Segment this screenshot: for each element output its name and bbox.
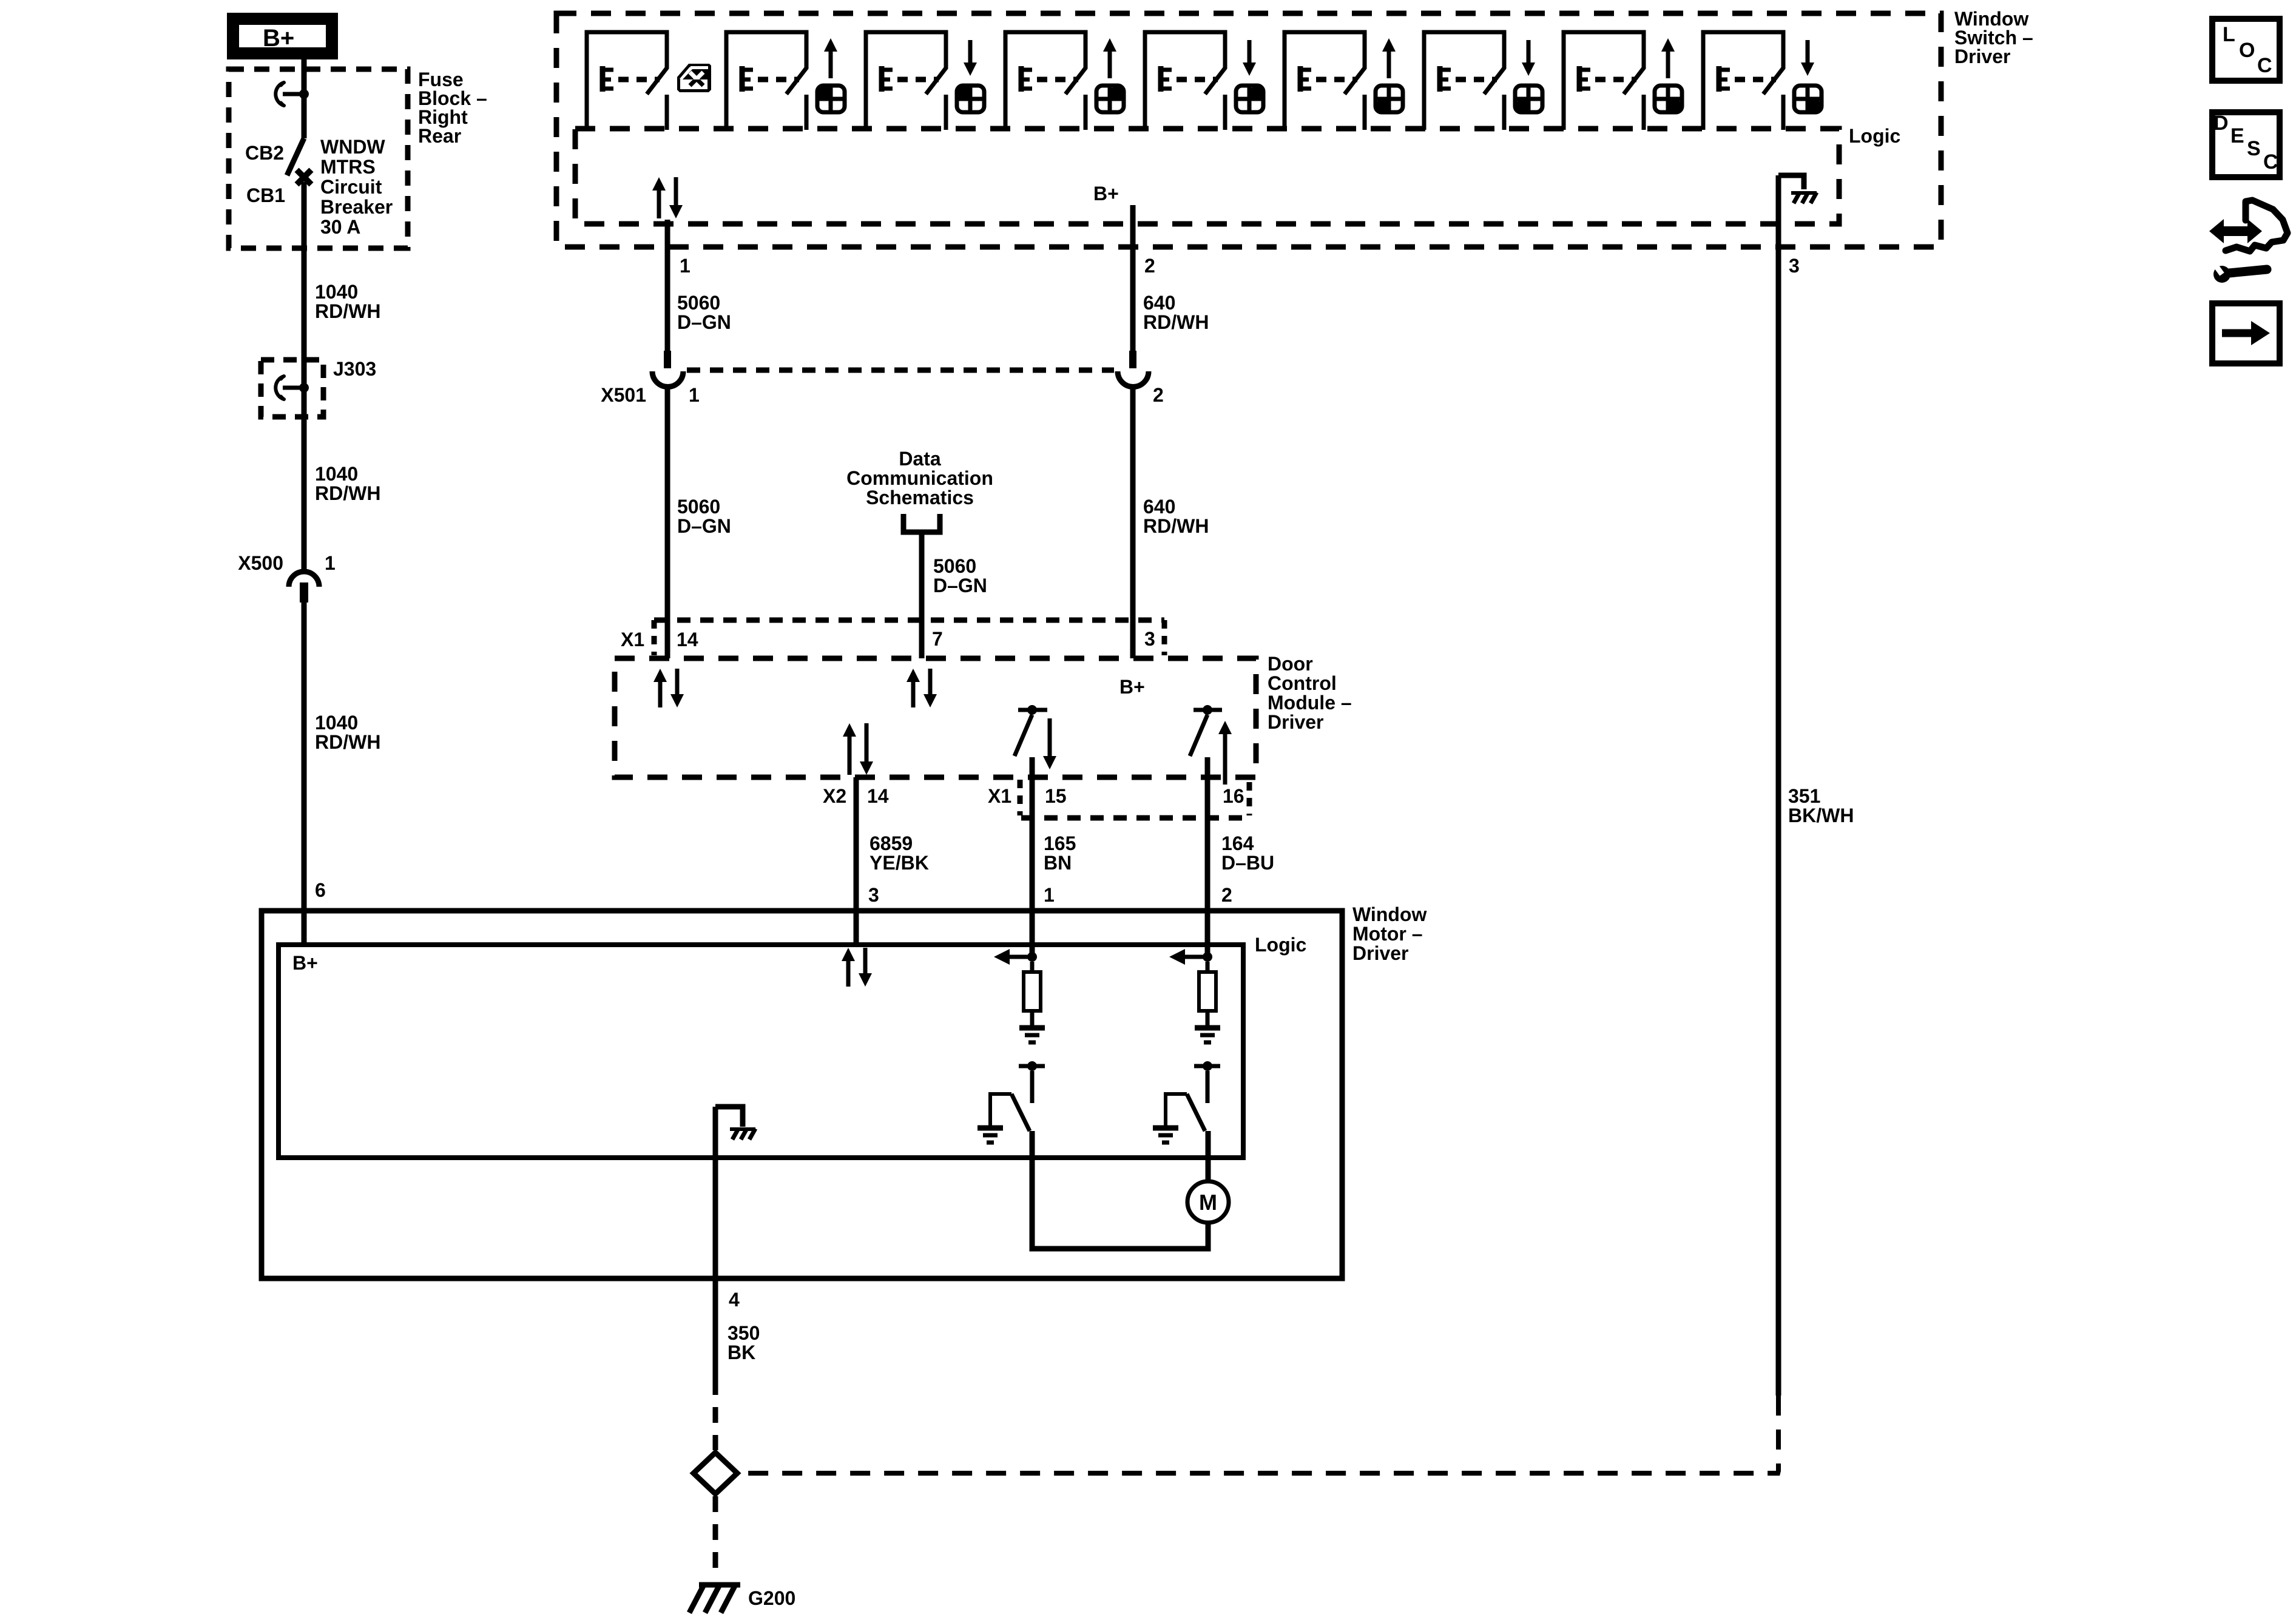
ground [1153, 1126, 1178, 1131]
window switch contact (box at x=2577) [1564, 32, 1644, 130]
dashed wire splice to ground [713, 1496, 718, 1575]
junction node [299, 89, 309, 99]
power symbol B+ [233, 19, 332, 53]
svg-text:Circuit: Circuit [320, 176, 382, 198]
window motor logic box [279, 945, 1243, 1158]
svg-text:CB2: CB2 [245, 142, 284, 164]
svg-text:O: O [2239, 39, 2255, 62]
ground [1019, 1025, 1045, 1031]
module switch pin 16 (up) [1203, 705, 1212, 715]
window switch logic box [575, 129, 1839, 224]
svg-text:2: 2 [1153, 384, 1164, 406]
svg-text:14: 14 [867, 785, 889, 807]
svg-text:YE/BK: YE/BK [869, 852, 929, 874]
svg-text:1: 1 [1044, 884, 1055, 906]
connector X1 row of door module [654, 618, 1164, 623]
svg-text:5060: 5060 [677, 496, 720, 518]
ground G200 [699, 1582, 740, 1588]
svg-text:L: L [2223, 23, 2235, 46]
svg-text:X1: X1 [621, 629, 644, 650]
current-direction arrow [1008, 955, 1032, 959]
switch blade [1187, 1094, 1205, 1131]
window switch contact (box at x=2807) [1703, 32, 1783, 130]
svg-text:D–BU: D–BU [1221, 852, 1274, 874]
svg-text:1040: 1040 [315, 463, 358, 485]
svg-text:Breaker: Breaker [320, 196, 393, 218]
svg-text:RD/WH: RD/WH [1143, 515, 1209, 537]
logic output arrows pin 1 [652, 177, 666, 191]
switch throw to ground [990, 1094, 1011, 1127]
switch up-arrow [1103, 38, 1116, 52]
window pane icon (br) [1655, 86, 1682, 112]
logic internal ground [715, 1107, 743, 1127]
wire 640 RD/WH upper [1130, 205, 1136, 351]
current-direction arrow [1184, 955, 1207, 959]
svg-text:Communication: Communication [846, 467, 993, 489]
motor M [1187, 1181, 1229, 1223]
window switch driver outer box [556, 13, 1941, 247]
svg-text:B+: B+ [263, 25, 294, 52]
bracket to data communication schematics [903, 514, 940, 532]
svg-text:165: 165 [1044, 832, 1076, 854]
window switch contact (box at x=2347) [1424, 32, 1504, 130]
svg-text:Logic: Logic [1849, 125, 1900, 147]
wire 1040 RD/WH segment 3 to window motor [302, 603, 307, 945]
svg-text:D–GN: D–GN [677, 311, 731, 333]
window switch contact (box at x=967) [587, 32, 667, 130]
svg-text:BK/WH: BK/WH [1788, 805, 1854, 826]
switch up-arrow [1661, 38, 1675, 52]
logic ground pin 3 [1778, 175, 1804, 189]
ground [977, 1126, 1003, 1131]
svg-text:640: 640 [1143, 292, 1175, 314]
splice J303 box [261, 360, 323, 417]
svg-text:6859: 6859 [869, 832, 913, 854]
connector X501 dashed link [687, 368, 1114, 373]
legend double arrow [2221, 226, 2251, 236]
module switch pin 15 (down) [1027, 705, 1037, 715]
svg-text:5060: 5060 [677, 292, 720, 314]
legend forward arrow box [2212, 303, 2280, 363]
svg-text:X501: X501 [601, 384, 646, 406]
wire 1040 RD/WH segment 1 [302, 182, 307, 419]
svg-text:640: 640 [1143, 496, 1175, 518]
svg-text:1040: 1040 [315, 712, 358, 734]
hook contact J303 [275, 376, 284, 399]
svg-text:Motor –: Motor – [1352, 923, 1423, 945]
window pane icon (bl) [1515, 86, 1542, 112]
svg-text:B+: B+ [1093, 183, 1119, 204]
legend LOC box [2212, 19, 2280, 81]
switch down-arrow [1248, 40, 1252, 64]
svg-text:S: S [2247, 137, 2261, 160]
switch pole node [1203, 1061, 1212, 1071]
svg-text:C: C [2257, 54, 2272, 77]
wire 5060 D-GN lower [665, 387, 670, 658]
switch down-arrow [1527, 40, 1531, 64]
svg-text:14: 14 [677, 629, 698, 650]
wire 351 BK/WH [1776, 175, 1781, 1396]
module arrows X2 pin 14 [843, 723, 856, 737]
module arrows pin 14 [653, 669, 667, 682]
window switch contact (box at x=1887) [1145, 32, 1225, 130]
wire 640 RD/WH lower [1130, 387, 1136, 658]
svg-text:Module –: Module – [1268, 692, 1352, 714]
svg-text:Schematics: Schematics [866, 487, 974, 508]
svg-text:D–GN: D–GN [933, 575, 987, 596]
fuse block box (Fuse Block - Right Rear) [229, 69, 408, 248]
svg-text:BK: BK [728, 1342, 755, 1363]
svg-text:CB1: CB1 [246, 184, 285, 206]
window switch contact (box at x=2117) [1285, 32, 1365, 130]
svg-text:Driver: Driver [1268, 711, 1324, 733]
connector X500 pin 1 [289, 572, 319, 587]
svg-text:164: 164 [1221, 832, 1254, 854]
svg-text:C: C [2263, 150, 2278, 174]
svg-text:MTRS: MTRS [320, 156, 376, 178]
express-down window icon [677, 64, 711, 92]
module arrows pin 7 [907, 669, 920, 682]
dashed wire to splice [713, 1379, 718, 1450]
motor feed wires [1032, 1131, 1208, 1249]
circuit breaker CB blade [287, 138, 304, 175]
switch pole node [1027, 1061, 1037, 1071]
wire B+ to breaker [302, 53, 307, 138]
svg-text:Door: Door [1268, 653, 1313, 675]
svg-text:16: 16 [1223, 785, 1244, 807]
window pane icon (br) [1794, 86, 1822, 112]
breaker hook contact [275, 83, 284, 106]
svg-text:4: 4 [729, 1289, 740, 1311]
svg-text:350: 350 [728, 1322, 760, 1344]
connector X501 pin 2 [1129, 351, 1136, 368]
svg-text:3: 3 [1789, 255, 1800, 277]
wire 5060 D-GN to pin 7 [919, 535, 925, 658]
legend DESC box [2212, 112, 2280, 177]
svg-text:15: 15 [1045, 785, 1067, 807]
splice diamond [694, 1453, 737, 1494]
svg-text:30 A: 30 A [320, 216, 360, 238]
window pane icon (tr) [1236, 86, 1263, 112]
window pane icon (bl) [1376, 86, 1403, 112]
window switch contact (box at x=1657) [1005, 32, 1086, 130]
ground [1195, 1025, 1220, 1031]
svg-text:B+: B+ [1119, 676, 1145, 698]
legend hand adjust icon [2226, 200, 2288, 251]
connector X1 bottom of door module [1021, 815, 1249, 821]
door control module box [615, 658, 1256, 777]
resistor [1030, 962, 1035, 972]
drive output node (x=1701) [1027, 952, 1037, 962]
svg-text:E: E [2230, 124, 2244, 147]
svg-text:Window: Window [1352, 903, 1427, 925]
svg-text:X2: X2 [823, 785, 846, 807]
wire 164 D-BU [1205, 757, 1210, 957]
switch up-arrow [824, 38, 837, 52]
wire 165 BN [1030, 757, 1035, 957]
switch down-arrow [1806, 40, 1810, 64]
svg-text:2: 2 [1221, 884, 1232, 906]
svg-text:WNDW: WNDW [320, 136, 385, 158]
svg-text:Data: Data [899, 448, 941, 470]
wire 5060 D-GN upper [665, 220, 670, 351]
switch blade [1011, 1094, 1030, 1131]
window motor driver box [262, 911, 1342, 1278]
breaker X mark [297, 170, 311, 184]
svg-text:G200: G200 [748, 1587, 795, 1609]
svg-text:3: 3 [868, 884, 879, 906]
svg-text:Logic: Logic [1255, 934, 1306, 956]
connector X501 pin 1 [664, 351, 671, 368]
svg-text:D: D [2213, 112, 2229, 135]
junction node J303 [299, 383, 309, 393]
svg-text:RD/WH: RD/WH [1143, 311, 1209, 333]
svg-text:6: 6 [315, 879, 326, 901]
svg-text:7: 7 [932, 628, 943, 650]
ground wire pin 4 [713, 1107, 718, 1295]
svg-text:1040: 1040 [315, 281, 358, 303]
svg-text:Rear: Rear [418, 125, 461, 147]
resistor [1206, 962, 1210, 972]
svg-text:BN: BN [1044, 852, 1072, 874]
svg-text:RD/WH: RD/WH [315, 731, 380, 753]
window pane icon (tr) [1096, 86, 1124, 112]
dashed wire to splice [740, 1396, 1778, 1473]
wire 6859 YE/BK [854, 777, 859, 945]
svg-text:X500: X500 [238, 552, 283, 574]
switch throw to ground [1166, 1094, 1187, 1127]
window pane icon (tl) [957, 86, 984, 112]
logic arrows pin 3 [842, 948, 855, 961]
svg-text:2: 2 [1144, 255, 1155, 277]
svg-text:1: 1 [325, 552, 336, 574]
switch down-arrow [968, 40, 973, 64]
svg-text:RD/WH: RD/WH [315, 482, 380, 504]
svg-text:M: M [1199, 1190, 1217, 1215]
window pane icon (tl) [817, 86, 845, 112]
svg-text:RD/WH: RD/WH [315, 300, 380, 322]
legend wrench [2213, 266, 2230, 283]
svg-text:B+: B+ [292, 952, 318, 974]
svg-text:1: 1 [689, 384, 700, 406]
window switch contact (box at x=1427) [866, 32, 946, 130]
svg-text:3: 3 [1144, 628, 1155, 650]
window switch contact (box at x=1197) [726, 32, 806, 130]
switch up-arrow [1382, 38, 1396, 52]
svg-text:5060: 5060 [933, 555, 976, 577]
svg-text:1: 1 [680, 255, 690, 277]
svg-text:Driver: Driver [1954, 46, 2011, 67]
svg-text:Control: Control [1268, 672, 1337, 694]
svg-text:J303: J303 [333, 358, 376, 380]
svg-text:Driver: Driver [1352, 942, 1409, 964]
wire 1040 RD/WH segment 2 [302, 417, 307, 573]
drive output node (x=1990) [1203, 952, 1212, 962]
wire 350 BK [713, 1295, 718, 1379]
svg-text:351: 351 [1788, 785, 1820, 807]
svg-text:D–GN: D–GN [677, 515, 731, 537]
svg-text:X1: X1 [988, 785, 1011, 807]
